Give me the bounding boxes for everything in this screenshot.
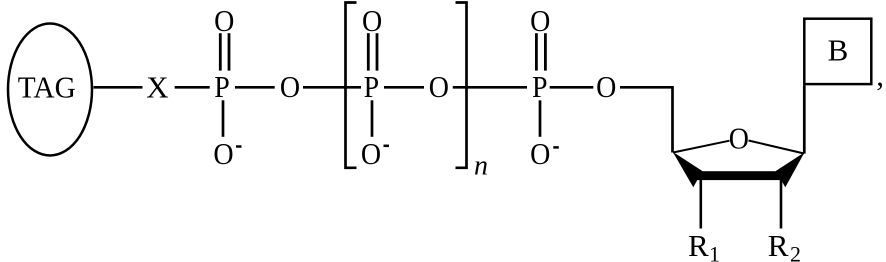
svg-text:P: P: [364, 69, 380, 104]
svg-text:O: O: [214, 3, 234, 38]
TAG ellipse: [8, 24, 92, 156]
double bond P1=O: [220, 33, 229, 70]
svg-text:2: 2: [790, 242, 801, 262]
wire P2 to O-: [371, 100, 374, 137]
double bond P2=O: [368, 33, 377, 70]
atom O- of P3: [530, 136, 559, 171]
bold bond C3'-C2': [694, 171, 787, 180]
svg-text:P: P: [214, 69, 230, 104]
svg-text:O: O: [361, 136, 381, 171]
svg-text:O: O: [362, 3, 382, 38]
base box B: [804, 19, 871, 84]
wire TAG-X: [94, 86, 143, 89]
atom O- of P1: [213, 136, 241, 171]
svg-text:B: B: [828, 32, 849, 67]
ring bond C4'-O: [673, 141, 730, 153]
svg-text:O: O: [596, 69, 616, 104]
wire O-P2 crossing left bracket: [303, 86, 361, 89]
ring bond O-C1': [749, 141, 805, 154]
svg-text:O: O: [530, 136, 550, 171]
label R2: [768, 228, 801, 262]
wire C1'-B box: [803, 85, 806, 153]
wire P1-O bridge: [235, 86, 275, 89]
wire O-P3 crossing right bracket: [453, 86, 527, 89]
wire O-C5'-C4' (horizontal then corner down): [620, 87, 673, 152]
right bracket: [456, 3, 467, 168]
svg-text:,: ,: [876, 57, 884, 92]
svg-text:O: O: [429, 69, 449, 104]
svg-text:O: O: [280, 69, 300, 104]
wire C3'-R1: [699, 180, 702, 229]
svg-text:O: O: [213, 136, 233, 171]
wire P3 to O-: [539, 100, 542, 137]
svg-text:O: O: [729, 121, 749, 156]
svg-text:O: O: [530, 3, 550, 38]
wire X-P1: [175, 86, 210, 89]
atom O- of P2: [361, 136, 389, 171]
svg-text:P: P: [532, 69, 548, 104]
wire P2-O bridge: [384, 86, 424, 89]
left bracket: [346, 3, 357, 168]
wedge bond C1'-C2': [776, 152, 805, 187]
svg-text:n: n: [474, 150, 488, 181]
double bond P3=O: [536, 33, 545, 70]
svg-text:R: R: [768, 228, 789, 262]
svg-text:TAG: TAG: [18, 69, 76, 104]
wedge bond C4'-C3': [673, 152, 703, 188]
wire C2'-R2: [780, 180, 783, 229]
label R1: [688, 228, 720, 262]
svg-text:R: R: [688, 228, 709, 262]
svg-text:X: X: [146, 69, 168, 104]
svg-text:1: 1: [709, 242, 720, 262]
wire P1 to O-: [222, 100, 225, 137]
wire P3-O bridge: [550, 86, 594, 89]
